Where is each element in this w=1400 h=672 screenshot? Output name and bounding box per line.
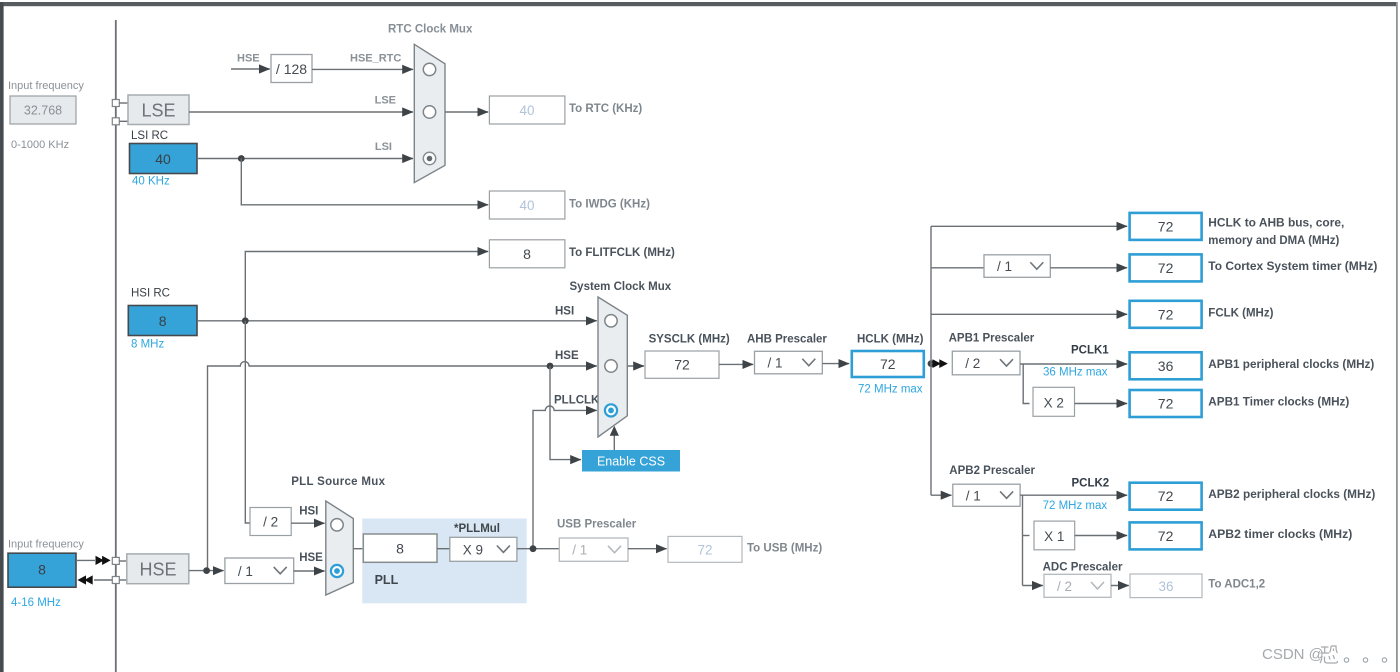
label HSE at PLL mux xyxy=(299,552,323,564)
svg-text:8: 8 xyxy=(523,246,531,262)
label FCLK (MHz) xyxy=(1208,307,1273,319)
wire /128 to RTC mux xyxy=(312,68,413,70)
APB1 peripheral field 36 xyxy=(1130,352,1202,379)
svg-text:4-16 MHz: 4-16 MHz xyxy=(11,597,61,609)
radio HSE_RTC (unselected) xyxy=(423,63,435,75)
wire pin to HSE box (double arrow left) xyxy=(78,575,113,584)
oscillator HSE xyxy=(127,554,189,584)
junction PLL output xyxy=(530,545,537,552)
radio PLLCLK (selected) xyxy=(605,404,617,416)
label To FLITFCLK (MHz) xyxy=(569,247,675,259)
svg-text:/ 2: / 2 xyxy=(1057,579,1072,594)
svg-text:APB2 peripheral clocks (MHz): APB2 peripheral clocks (MHz) xyxy=(1208,489,1375,501)
FCLK field 72 xyxy=(1130,301,1202,328)
label HCLK (MHz) xyxy=(857,334,924,346)
label PCLK2 xyxy=(1071,477,1109,489)
svg-text:LSI RC: LSI RC xyxy=(131,130,168,142)
label Input frequency (LSE) xyxy=(8,80,84,92)
svg-text:PLL Source Mux: PLL Source Mux xyxy=(291,476,385,488)
prescaler APB2 /1 xyxy=(953,484,1020,506)
svg-text:LSI: LSI xyxy=(375,141,392,153)
prescaler Cortex /1 xyxy=(984,255,1050,277)
svg-text:8 MHz: 8 MHz xyxy=(131,339,164,351)
svg-text:HCLK to AHB bus, core,: HCLK to AHB bus, core, xyxy=(1208,218,1344,230)
svg-text:PCLK2: PCLK2 xyxy=(1071,477,1109,489)
wire to Cortex prescaler xyxy=(931,267,984,269)
page frame left border xyxy=(0,2,4,672)
svg-text:To Cortex System timer (MHz): To Cortex System timer (MHz) xyxy=(1208,261,1377,273)
svg-text:HSI: HSI xyxy=(299,506,318,518)
svg-text:36: 36 xyxy=(1158,358,1174,374)
svg-text:/ 128: / 128 xyxy=(276,61,307,77)
svg-text:8: 8 xyxy=(159,313,167,329)
label 72 MHz max (PCLK2) xyxy=(1043,500,1108,512)
prescaler ADC /2 (disabled) xyxy=(1044,574,1111,597)
svg-text:HSE: HSE xyxy=(555,350,579,362)
wire HSI to PLL /2 divider xyxy=(245,321,249,523)
label USB Prescaler xyxy=(557,519,637,531)
svg-text:40: 40 xyxy=(155,151,171,167)
HSE pin square upper xyxy=(112,557,119,564)
radio LSI (selected) xyxy=(423,152,435,164)
wire HSI to FLITFCLK xyxy=(245,252,488,321)
LSE pin square lower xyxy=(112,118,119,125)
wire PLLCLK to System Clock Mux (with hop) xyxy=(533,406,597,549)
label HSE (RTC path) xyxy=(237,53,260,65)
wire ADC prescaler to field xyxy=(1111,585,1129,587)
mux System Clock Mux body xyxy=(598,297,627,437)
wire X2 to APB1 timer field xyxy=(1075,403,1128,405)
label 8 MHz xyxy=(131,339,164,351)
label PLLCLK at system mux xyxy=(554,395,600,407)
svg-text:HSE: HSE xyxy=(139,560,176,580)
wire APB2 to X1 xyxy=(1023,535,1030,537)
wire HSE pins to HSE box xyxy=(119,561,127,580)
label HSI at PLL mux xyxy=(299,506,318,518)
label PLL Source Mux xyxy=(291,476,385,488)
svg-text:72: 72 xyxy=(697,542,712,557)
wire to APB2 prescaler xyxy=(931,494,952,496)
label PCLK1 xyxy=(1071,344,1109,356)
radio LSE (unselected) xyxy=(423,106,435,118)
oscillator HSI RC 8 xyxy=(128,306,197,336)
svg-text:72 MHz max: 72 MHz max xyxy=(1043,500,1108,512)
svg-text:PCLK1: PCLK1 xyxy=(1071,344,1109,356)
wire SYSCLK to AHB Prescaler xyxy=(719,363,753,365)
wire LSI to IWDG xyxy=(241,159,488,205)
label To RTC (KHz) xyxy=(569,103,642,115)
watermark CSDN xyxy=(1262,646,1387,663)
label Input frequency (HSE) xyxy=(8,539,84,551)
svg-text:/ 1: / 1 xyxy=(966,488,981,503)
svg-text:USB Prescaler: USB Prescaler xyxy=(557,519,637,531)
svg-text:APB1 Timer clocks (MHz): APB1 Timer clocks (MHz) xyxy=(1208,397,1349,409)
svg-text:To IWDG (KHz): To IWDG (KHz) xyxy=(569,199,650,211)
svg-text:HSI RC: HSI RC xyxy=(131,288,170,300)
ADC field 36 (disabled) xyxy=(1130,574,1202,598)
svg-text:System Clock Mux: System Clock Mux xyxy=(570,281,672,293)
svg-text:PLL: PLL xyxy=(375,573,399,587)
button Enable CSS xyxy=(582,450,680,472)
wire PLL mux output xyxy=(353,548,364,550)
wire HSI to System Clock Mux xyxy=(197,320,597,322)
page frame top border xyxy=(0,2,1398,6)
svg-text:8: 8 xyxy=(396,541,404,557)
svg-text:HSE: HSE xyxy=(299,552,323,564)
svg-text:/ 2: / 2 xyxy=(263,515,278,530)
label 72 MHz max (HCLK) xyxy=(858,384,923,396)
svg-text:APB2 timer clocks (MHz): APB2 timer clocks (MHz) xyxy=(1208,529,1352,541)
label *PLLMul xyxy=(454,523,500,535)
label ADC Prescaler xyxy=(1043,562,1123,574)
Cortex timer field 72 xyxy=(1130,254,1202,281)
svg-text:To RTC (KHz): To RTC (KHz) xyxy=(569,103,642,115)
svg-text:HSE: HSE xyxy=(237,53,260,65)
label APB1 Timer clocks (MHz) xyxy=(1208,397,1349,409)
HCLK AHB field 72 xyxy=(1130,213,1202,240)
FLITFCLK output field 8 xyxy=(489,240,565,268)
LSE pin square upper xyxy=(112,100,119,107)
wire PLL /2 to mux xyxy=(291,522,324,524)
svg-text:APB2 Prescaler: APB2 Prescaler xyxy=(949,465,1035,477)
wire LSE to RTC mux xyxy=(189,111,413,113)
radio HSI (unselected) xyxy=(605,315,617,327)
svg-text:*PLLMul: *PLLMul xyxy=(454,523,500,535)
wire X9 to PLL output junction xyxy=(517,548,559,550)
label APB2 timer clocks (MHz) xyxy=(1208,529,1352,541)
radio HSE at PLL mux (selected) xyxy=(331,565,343,577)
svg-text:/ 1: / 1 xyxy=(997,259,1012,274)
label LSI RC xyxy=(131,130,168,142)
label AHB Prescaler xyxy=(747,334,827,346)
svg-text:72: 72 xyxy=(674,357,690,373)
svg-text:To USB (MHz): To USB (MHz) xyxy=(747,542,822,554)
svg-text:40: 40 xyxy=(519,198,534,213)
label SYSCLK (MHz) xyxy=(649,334,730,346)
svg-text:ADC Prescaler: ADC Prescaler xyxy=(1043,562,1123,574)
svg-text:72: 72 xyxy=(1158,488,1174,504)
svg-text:72: 72 xyxy=(880,356,896,372)
svg-text:X 2: X 2 xyxy=(1044,396,1064,411)
svg-text:Input frequency: Input frequency xyxy=(8,80,84,92)
wire RTC mux output xyxy=(445,111,488,113)
wire APB1 to X2 xyxy=(1023,364,1029,404)
wire to ADC prescaler xyxy=(1023,585,1043,587)
wire HSE /1 to PLL mux xyxy=(294,570,325,572)
peripheral bus line (left vertical) xyxy=(115,20,117,672)
junction HSE-CSS xyxy=(547,363,554,370)
svg-text:SYSCLK (MHz): SYSCLK (MHz) xyxy=(649,334,730,346)
svg-text:72: 72 xyxy=(1158,260,1174,276)
label HSE at system mux xyxy=(555,350,579,362)
svg-text:APB1 Prescaler: APB1 Prescaler xyxy=(949,333,1035,345)
svg-text:72: 72 xyxy=(1158,306,1174,322)
svg-text:FCLK (MHz): FCLK (MHz) xyxy=(1208,307,1273,319)
svg-text:CSDN @: CSDN @ xyxy=(1262,646,1324,663)
radio HSI at PLL mux (unselected) xyxy=(331,519,343,531)
divider /128 xyxy=(271,55,312,83)
label APB1 peripheral clocks (MHz) xyxy=(1208,359,1374,371)
label PLL xyxy=(375,573,399,587)
prescaler USB /1 (disabled) xyxy=(559,538,628,561)
svg-text:To FLITFCLK (MHz): To FLITFCLK (MHz) xyxy=(569,247,675,259)
svg-text:X 9: X 9 xyxy=(463,542,483,557)
svg-text:32.768: 32.768 xyxy=(24,104,62,118)
svg-text:0-1000 KHz: 0-1000 KHz xyxy=(11,139,69,151)
divider PLL /2 xyxy=(250,508,291,536)
wire HSE to System Clock Mux (with hop) xyxy=(208,362,597,571)
wire Cortex prescaler to field xyxy=(1050,267,1127,269)
svg-text:/ 1: / 1 xyxy=(572,543,587,558)
svg-text:72: 72 xyxy=(1158,218,1174,234)
PLL input field 8 xyxy=(363,534,437,562)
label HSI RC xyxy=(131,288,170,300)
svg-text:APB1 peripheral clocks (MHz): APB1 peripheral clocks (MHz) xyxy=(1208,359,1374,371)
label HSI at system mux xyxy=(555,306,574,318)
label 0-1000 KHz xyxy=(11,139,69,151)
label 4-16 MHz xyxy=(11,597,61,609)
APB2 timer field 72 xyxy=(1130,522,1202,549)
wire to FCLK field xyxy=(931,313,1127,315)
HCLK field 72 xyxy=(852,351,924,377)
wire HCLK distribution vertical xyxy=(930,226,932,495)
wire LSI to RTC mux xyxy=(197,158,413,160)
label To ADC1,2 xyxy=(1208,579,1265,591)
svg-text:8: 8 xyxy=(38,562,46,578)
label LSE at RTC mux xyxy=(375,95,396,107)
svg-text:HSI: HSI xyxy=(555,306,574,318)
svg-text:memory and DMA (MHz): memory and DMA (MHz) xyxy=(1208,235,1339,247)
multiplier X1 xyxy=(1034,521,1075,550)
svg-text:LSE: LSE xyxy=(141,101,175,121)
label 36 MHz max xyxy=(1043,366,1108,378)
svg-text:AHB Prescaler: AHB Prescaler xyxy=(747,334,827,346)
svg-text:/ 1: / 1 xyxy=(238,564,253,579)
label RTC Clock Mux xyxy=(388,24,473,36)
wire X1 to APB2 timer field xyxy=(1075,535,1128,537)
label APB2 Prescaler xyxy=(949,465,1035,477)
junction LSI branch xyxy=(238,155,245,162)
wire PLL 8 to X9 xyxy=(437,548,450,550)
label HSE_RTC xyxy=(350,53,401,65)
HSE pin square lower xyxy=(112,577,119,584)
wire HSE to Enable CSS xyxy=(550,366,581,460)
label To Cortex System timer (MHz) xyxy=(1208,261,1377,273)
prescaler HSE /1 xyxy=(225,558,294,584)
wire System mux to SYSCLK xyxy=(627,365,644,367)
svg-text:/ 1: / 1 xyxy=(768,356,783,371)
prescaler APB1 /2 xyxy=(952,351,1020,375)
svg-text:72 MHz max: 72 MHz max xyxy=(858,384,923,396)
svg-text:40: 40 xyxy=(519,103,534,118)
label To IWDG (KHz) xyxy=(569,199,650,211)
oscillator LSI RC 40 xyxy=(130,144,198,174)
svg-text:Input frequency: Input frequency xyxy=(8,539,84,551)
label APB1 Prescaler xyxy=(949,333,1035,345)
svg-text:RTC Clock Mux: RTC Clock Mux xyxy=(388,24,473,36)
svg-text:To ADC1,2: To ADC1,2 xyxy=(1208,579,1265,591)
label To USB (MHz) xyxy=(747,542,822,554)
wire HSE stub to /128 xyxy=(231,68,270,70)
svg-text:72: 72 xyxy=(1158,396,1174,412)
wire APB2 branch vertical xyxy=(1022,495,1024,585)
junction HCLK xyxy=(928,360,935,367)
HSE input frequency field 8 xyxy=(8,553,76,587)
LSE input frequency field 32.768 xyxy=(10,96,76,124)
label LSI at RTC mux xyxy=(375,141,392,153)
svg-text:LSE: LSE xyxy=(375,95,396,107)
svg-text:36 MHz max: 36 MHz max xyxy=(1043,366,1108,378)
page frame right border xyxy=(1396,2,1398,672)
label APB2 peripheral clocks (MHz) xyxy=(1208,489,1375,501)
svg-text:Enable CSS: Enable CSS xyxy=(597,455,665,469)
svg-text:HCLK (MHz): HCLK (MHz) xyxy=(857,334,924,346)
junction HSE riser xyxy=(203,567,210,574)
label System Clock Mux xyxy=(570,281,672,293)
svg-text:HSE_RTC: HSE_RTC xyxy=(350,53,401,65)
multiplier PLLMul X9 xyxy=(450,537,517,561)
svg-text:40 KHz: 40 KHz xyxy=(132,176,170,188)
label 40 KHz xyxy=(132,176,170,188)
USB field 72 (disabled) xyxy=(668,536,742,562)
svg-text:PLLCLK: PLLCLK xyxy=(554,395,600,407)
PLL panel xyxy=(362,519,526,604)
wire LSE pins to LSE box xyxy=(119,103,128,121)
IWDG output field 40 xyxy=(489,191,565,219)
svg-text:36: 36 xyxy=(1158,579,1173,594)
radio HSE (unselected) xyxy=(605,360,617,372)
svg-text:72: 72 xyxy=(1158,528,1174,544)
label HCLK to AHB bus core memory and DMA xyxy=(1208,218,1344,247)
wire AHB to HCLK xyxy=(822,363,849,365)
wire HSE box to pin (double arrow right) xyxy=(76,556,111,565)
wire HCLK junction double arrow xyxy=(931,359,948,368)
prescaler AHB /1 xyxy=(755,351,823,374)
wire to HCLK AHB field xyxy=(931,225,1127,227)
APB2 peripheral field 72 xyxy=(1130,483,1202,510)
wire HSE to /1 prescaler xyxy=(189,570,224,572)
junction HSI branch xyxy=(242,317,249,324)
SYSCLK field 72 xyxy=(645,351,719,378)
RTC output field 40 xyxy=(489,96,565,124)
svg-text:X 1: X 1 xyxy=(1044,529,1064,544)
wire APB2 prescaler to PCLK2 field xyxy=(1020,494,1127,496)
wire APB1 prescaler to PCLK1 field xyxy=(1020,363,1127,365)
APB1 timer field 72 xyxy=(1130,390,1202,417)
svg-text:/ 2: / 2 xyxy=(965,356,980,371)
multiplier X2 xyxy=(1033,387,1075,416)
oscillator LSE xyxy=(128,95,189,125)
wire USB prescaler to field xyxy=(628,548,667,550)
mux RTC Clock Mux body xyxy=(414,44,445,182)
mux PLL Source Mux body xyxy=(326,501,354,595)
wire Enable CSS to mux (up arrow) xyxy=(610,426,619,450)
